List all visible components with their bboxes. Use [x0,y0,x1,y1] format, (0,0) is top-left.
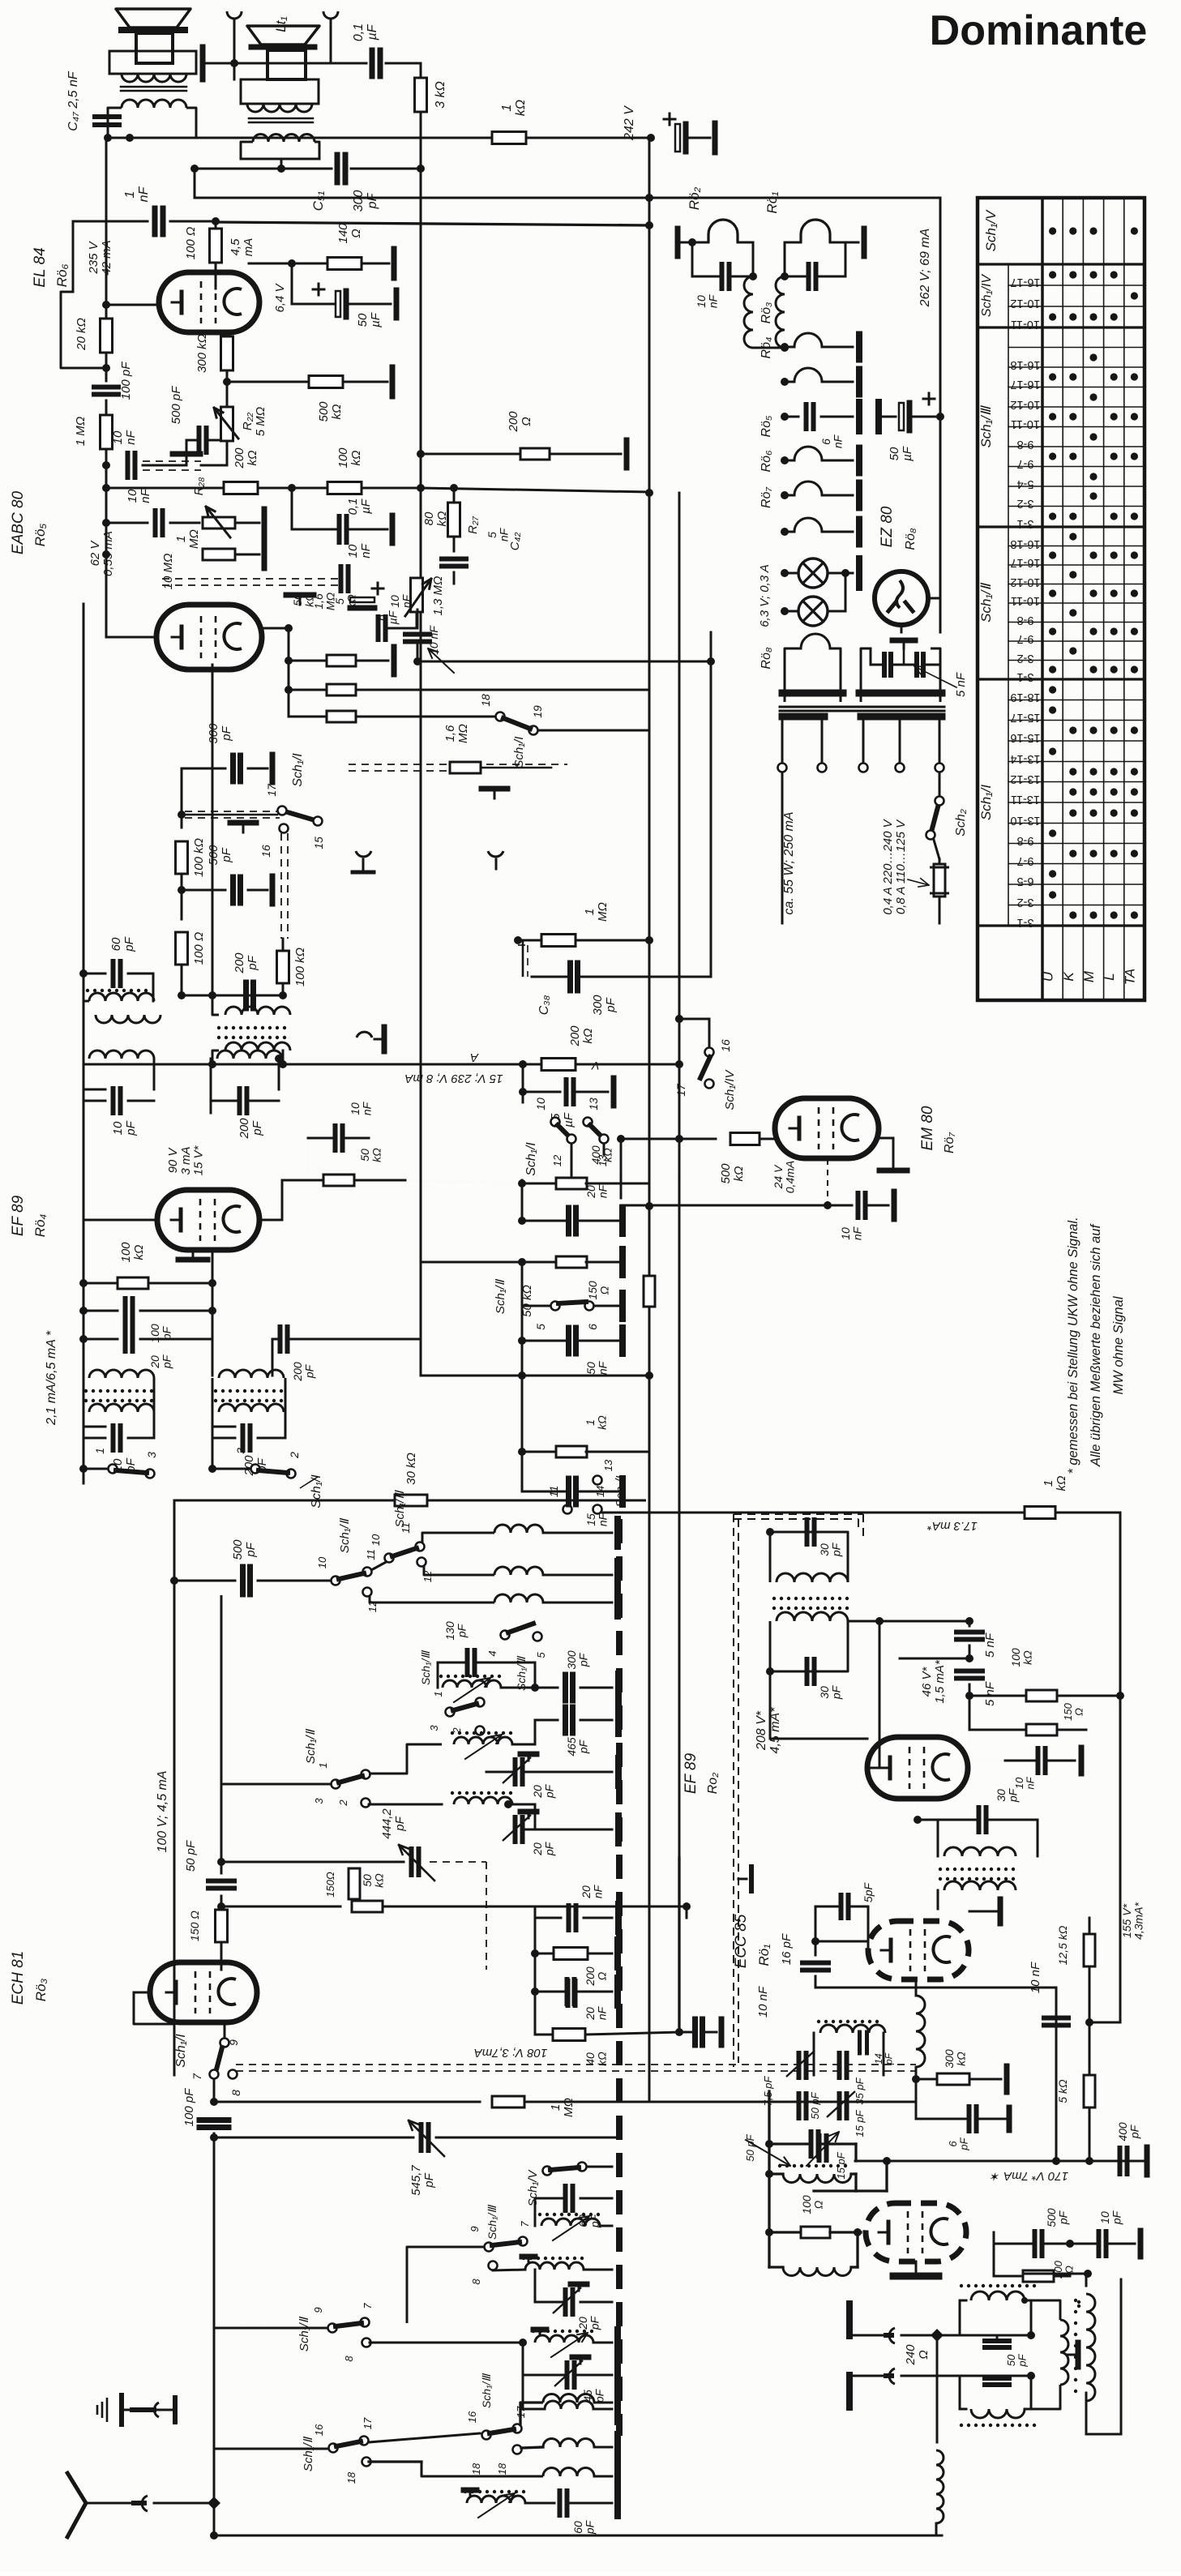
capacitor C47 2,5nF [95,114,119,119]
capacitor 0,1uF [291,488,293,529]
wire y1460 right of 50k [518,1179,526,1187]
svg-text:20pF: 20pF [576,2315,601,2330]
5pF cap [839,1895,844,1918]
svg-text:2: 2 [337,1799,349,1807]
capacitor 10nF agc [105,488,108,523]
transformer HV winding box [861,648,871,702]
fuse [934,840,939,859]
plain coil band [454,1797,512,1804]
IF can windings mid [225,1007,290,1015]
wire x336 1652-1697 [272,1339,274,1376]
wire y1228 long [83,995,84,996]
wire x519 217-760 [420,169,422,616]
svg-text:500kΩ: 500kΩ [317,401,344,422]
capacitor 200pF node [212,980,213,995]
svg-text:5pF: 5pF [862,1881,875,1902]
dipole hooks [849,2334,892,2337]
tube EF89 Ro2 [867,1737,968,1799]
wire y170 to 1kOhm line [454,137,492,139]
trimmers2 [797,2094,802,2118]
svg-text:10nF: 10nF [695,293,720,308]
svg-text:3: 3 [313,1798,325,1804]
svg-text:0,4 A 220…240 V0,8 A 110…125: 0,4 A 220…240 V0,8 A 110…125 V [881,818,908,914]
capacitor 30pF l [805,1659,810,1684]
ground bar Ro1 [862,229,867,256]
svg-text:3: 3 [145,1452,158,1458]
svg-text:TA: TA [1122,969,1137,985]
wire 1382-2495 [1089,2022,1120,2024]
svg-text:50 pF: 50 pF [184,1840,198,1872]
wire x264 to sw9 [214,2323,327,2328]
capacitor 300pF [182,768,225,770]
svg-text:242 V: 242 V [623,105,636,141]
svg-text:17: 17 [674,1083,687,1097]
FM tuner coil box upper [820,2025,885,2033]
wire plate EL84 left [106,304,159,306]
wire x519 1652-1697 [420,1059,422,1180]
svg-text:50pF: 50pF [1005,2353,1029,2367]
capacitor 300pF band [535,1687,558,1689]
resistor 40kOhm [534,1992,537,2035]
svg-text:Rö₇: Rö₇ [943,1132,956,1153]
capacitor 10nF under 1,3M [405,632,430,637]
svg-text:18-19: 18-19 [1010,691,1040,704]
svg-text:1 MΩ: 1 MΩ [74,417,88,446]
cap 50pF fm [769,2142,807,2145]
EM80 target cap 10nF [827,1159,828,1205]
svg-text:60pF: 60pF [109,936,136,952]
capacitor 500pF 2 [182,889,225,892]
capacitor 30pF out [917,1799,918,1820]
svg-text:35 pF: 35 pF [854,2077,866,2104]
dashed 108V line [236,2064,916,2065]
wire into EABC80 [105,604,108,637]
svg-text:20nF: 20nF [584,1183,610,1198]
terminal bar left of Lt1 [200,47,206,79]
cap 20nF real [686,1917,687,1919]
heater coil Rö₆ [781,491,789,499]
IF trafo 3a [89,1370,154,1378]
resistor 12,5k [1084,1934,1095,1966]
svg-text:Sch₁/I: Sch₁/I [174,2034,188,2068]
svg-text:8: 8 [343,2356,355,2362]
cap 10pF out [1097,2232,1102,2256]
wire y1866 17.3mA [602,1512,1025,1514]
svg-text:50nF: 50nF [584,1360,610,1375]
svg-text:15-17: 15-17 [1010,711,1040,724]
heater junction 242V [645,221,653,229]
wire 170V line [855,2160,1147,2163]
wire antenna bottom bus [213,2503,216,2535]
wire 3k to y208 [420,112,422,169]
resistor 500kOhm [309,376,343,388]
wire triode grid x273 to tube [220,1962,222,1970]
resistor 150 Ohm ech [349,1868,360,1899]
svg-text:9-7: 9-7 [1017,632,1034,645]
wire sw1b wiper to x273 [221,1783,331,1786]
switch Sch1/II 10-11 [332,1577,340,1585]
cap 6pF [915,2079,918,2119]
svg-text:10: 10 [370,1534,382,1546]
svg-text:A: A [470,1051,479,1064]
svg-text:200kΩ: 200kΩ [233,447,259,469]
svg-text:5 nF: 5 nF [954,672,968,697]
band coil 2 [424,1566,494,1575]
svg-text:18: 18 [479,694,492,707]
speaker Lt1 terminals [227,11,242,19]
wire [351,168,421,170]
svg-text:24 V0,4mA: 24 V0,4mA [772,1161,797,1193]
dashed bar column main [616,1519,623,2436]
svg-text:0,1µF: 0,1µF [352,24,379,41]
svg-text:M: M [1081,970,1097,982]
wire y560 right to x798 [453,454,455,503]
svg-text:90 V3 mA15 V*: 90 V3 mA15 V* [166,1145,206,1175]
capacitor 5nF r1 [965,1617,973,1625]
wire ro2 left pin [866,1767,868,1769]
ferrite coil ant4 [467,2496,525,2503]
capacitor 6uF electrolytic [372,588,383,590]
resistor 100kOhm ef89 screen [83,1220,84,1283]
svg-text:9-8: 9-8 [1017,834,1034,847]
EM80 ground [879,1137,893,1140]
svg-text:R₂₈: R₂₈ [192,477,206,496]
wire x644 1460-1506 [521,1180,524,1221]
dashed coupling to R22 [143,469,201,471]
wire y816 to x877 [417,661,711,663]
svg-text:100 V; 4,5 mA: 100 V; 4,5 mA [156,1770,169,1852]
svg-text:170 V* 7mA ✶: 170 V* 7mA ✶ [989,2169,1068,2183]
wire x131 down from y170 [105,138,108,305]
capacitor 10nF osc-fm link [678,1858,680,2032]
svg-text:16: 16 [466,2411,478,2423]
primary terminals [778,764,787,772]
switch Sch1/I 17-15 [287,812,313,820]
capacitor 100pF [105,368,108,381]
output transformer T1 primary [122,74,186,82]
svg-text:13: 13 [587,1098,600,1110]
switch Sch1/V [543,2167,552,2176]
ground bar heater left [675,229,681,256]
switch contacts 3-2 [251,1465,260,1474]
resistor 150 Ohm r [1026,1724,1057,1735]
table data column lines [1062,198,1063,1000]
capacitor 10nF stack [376,617,381,640]
wire top if2 to y1306 right [279,1058,421,1059]
t2 grid coil left [783,2267,851,2276]
svg-text:20nF: 20nF [584,2005,609,2020]
TA socket hook 3 [357,1032,372,1038]
svg-text:R₂₇: R₂₇ [466,516,480,534]
IF trafo 2b windings [217,1051,282,1059]
svg-text:EABC 80: EABC 80 [10,490,27,554]
svg-text:MW ohne Signal: MW ohne Signal [1111,1295,1126,1394]
svg-text:5 nF: 5 nF [983,1681,997,1706]
svg-text:13-14: 13-14 [1010,752,1040,765]
box top right wires [567,1500,568,1513]
resistor 1kOhm right [1025,1507,1055,1519]
ferrite coil osc3 [535,2335,593,2343]
capacitor 200pF if3 [212,1426,235,1428]
IF trafo 2a windings [83,1061,84,1100]
switch Sch1/III 16-17-18 [482,2431,491,2440]
resistor 100kOhm 2 [277,951,289,983]
svg-text:13-12: 13-12 [1010,772,1040,785]
wire x131 to y602 [105,465,108,488]
svg-text:60pF: 60pF [571,2519,597,2535]
svg-text:Sch₁/Ⅲ: Sch₁/Ⅲ [515,1656,528,1691]
svg-text:100kΩ: 100kΩ [119,1242,146,1263]
capacitor 50uF cathode bypass [291,263,293,304]
wire y1313 15V 239V line [83,1063,523,1066]
svg-text:108 V; 3,7mA: 108 V; 3,7mA [474,2046,548,2060]
balun mid wires [989,2334,1031,2337]
wire x360 602-610 [291,488,293,494]
heater ground bar Rö₇ [856,520,862,545]
svg-text:16-18: 16-18 [1010,537,1040,550]
svg-text:Sch₁/Ⅱ: Sch₁/Ⅱ [302,2436,315,2471]
wire y471 to 500k [227,381,309,383]
wire x950 2062-2145 [769,1671,772,1739]
resistor 1,6MOhm mid [450,762,481,773]
ECH81 tube Ro3 [150,1962,257,2022]
table label/data divider [1041,198,1044,1000]
wire x273 sw-chain [220,1595,223,1862]
switch Sch1/I 18-19 [496,712,505,721]
svg-text:3-1: 3-1 [1017,517,1034,530]
wire right bus x1382 [1119,1513,1122,2022]
resistor 50kOhm [288,628,290,661]
svg-text:17.3 mA*: 17.3 mA* [926,1519,978,1533]
svg-text:EF 89: EF 89 [10,1195,27,1236]
wire x766 y1405 up [620,1064,622,1139]
svg-text:10nF: 10nF [839,1226,864,1240]
capacitor 50uF B+ [875,402,882,431]
wire x264 down to antenna [213,2137,216,2503]
wire sw8 to coil3 [370,2342,523,2344]
coil ant3 [421,2462,543,2476]
wire y170-y208 speaker return [319,159,320,169]
svg-text:150Ω: 150Ω [324,1872,336,1898]
svg-text:300kΩ: 300kΩ [943,2049,968,2069]
svg-text:Sch₁/Ⅲ: Sch₁/Ⅲ [393,1490,407,1528]
TA socket hook 2 [488,851,503,857]
svg-text:12: 12 [551,1154,563,1166]
capacitor 10nF det [339,567,344,591]
ferrite coil 2 [479,1735,481,1744]
wire t2 plate [993,2232,995,2244]
300k t1 [915,2067,918,2079]
svg-text:Sch₁/I: Sch₁/I [524,1142,538,1176]
svg-text:Rö₈: Rö₈ [760,647,773,669]
transformer primary left [782,713,824,721]
svg-text:13: 13 [602,1459,614,1471]
EZ80 plate wires [928,597,940,600]
capacitor 10pF if3 [83,1426,105,1428]
svg-text:3-1: 3-1 [1017,916,1034,929]
resistor 200kOhm [224,482,258,494]
resistor 1MOhm [105,400,108,417]
svg-text:2: 2 [288,1452,301,1459]
heater filament Ro1 [785,242,801,244]
wire balun down coil [936,2450,944,2523]
svg-text:20pF: 20pF [531,1783,556,1799]
svg-text:6,3 V; 0,3 A: 6,3 V; 0,3 A [758,564,772,627]
svg-text:235 V42 mA: 235 V42 mA [87,240,113,275]
svg-text:16: 16 [313,2424,325,2436]
screen box stub ground [738,1878,747,1881]
resistor 100 Ohm t2 [765,2228,773,2236]
svg-text:5-4: 5-4 [1017,477,1034,490]
speaker Lt1 (right) [247,26,319,45]
tube EZ80 Ro8 [875,571,928,625]
wire ro2 plate [866,1739,867,1757]
lamp ground bar [845,572,853,574]
svg-text:Rö₆: Rö₆ [54,264,70,288]
earth ground symbol [122,2409,175,2411]
resistor 50kOhm screen on bus [644,1276,655,1307]
switch Sch1/II 5-6 [521,1262,524,1306]
wire x103 745-1201 [83,604,85,973]
svg-text:9-8: 9-8 [1017,614,1034,627]
wire 1nF node down to grid resistor [72,221,74,225]
capacitor 5nF r2 [965,1654,973,1662]
wire EF89 grid left [83,1151,85,1220]
svg-text:100 Ω: 100 Ω [184,227,198,260]
svg-text:ECH 81: ECH 81 [10,1951,27,2005]
svg-text:100 pF: 100 pF [182,2088,196,2127]
wire Lt1 secondary mid-tap [280,159,283,169]
ecc85 t1 cathode ground [918,1906,919,1921]
band coil 3 [370,1596,494,1603]
output transformer T1 core [121,86,186,88]
wire y1347 x645 down [522,1092,524,1122]
IF can lower windings [212,1051,219,1064]
capacitor 200pF if2 [211,1089,232,1090]
svg-text:30 kΩ: 30 kΩ [404,1453,418,1485]
ECH81 pin wires [134,1992,150,1994]
svg-text:Dominante: Dominante [930,7,1148,54]
svg-text:10-12: 10-12 [1010,398,1040,411]
svg-text:10 MΩ: 10 MΩ [161,554,175,590]
three B+ buses [678,493,681,1858]
capacitor 500pF band [174,1580,235,1582]
svg-text:1,3 MΩ: 1,3 MΩ [431,576,445,616]
coil ant2 [513,2445,522,2454]
svg-text:C₄₇ 2,5 nF: C₄₇ 2,5 nF [66,71,80,131]
svg-text:10nF: 10nF [349,1101,374,1115]
svg-text:10-11: 10-11 [1011,417,1040,430]
resistor 150 Ohm [216,1910,228,1942]
capacitor 20pF [83,1311,85,1339]
dipole bars [846,2304,853,2336]
16pF cap [802,1961,828,1966]
wire to grid t1 [867,1941,870,1950]
trimmer 20pF osc [563,2290,568,2314]
wire x103 1812-1851 [83,1469,85,1483]
capacitor 10nF ef89 [333,1126,338,1150]
capacitor 10nF r [1036,1748,1041,1773]
capacitor 200pF 3 [272,1338,276,1341]
capacitor 30pF u [805,1520,810,1544]
svg-text:50µF: 50µF [888,446,914,461]
wire x949 FM [768,2091,770,2232]
right feed coil [1086,2294,1095,2401]
wire ECH81 left [173,2074,175,2076]
wire x847 osc to sw [686,1926,687,1928]
resistor 30kOhm [395,1495,427,1506]
svg-text:15nF: 15nF [584,1512,610,1526]
wire antenna up [213,2449,216,2503]
resistor 200 Ohm to y560 [417,450,425,458]
heater coil Rö₄ [781,378,789,386]
balun top coil [971,2291,1025,2300]
svg-text:Sch₁/Ⅲ: Sch₁/Ⅲ [486,2205,499,2240]
IF transformer L13 winding [83,973,89,1001]
heater ground bar Rö₆ [856,483,862,508]
switch Sch1/II 9-7-8 b [328,2324,337,2333]
wire sw to ferrite2 [369,1744,442,1774]
svg-text:10-12: 10-12 [1010,297,1040,310]
svg-text:100kΩ: 100kΩ [1009,1648,1034,1667]
svg-text:30pF: 30pF [818,1684,843,1700]
svg-text:5: 5 [534,1324,547,1330]
svg-text:10nF: 10nF [1013,1776,1037,1789]
RF box outline [174,1500,646,1502]
svg-text:10: 10 [316,1556,328,1568]
capacitor 20nF 2 [534,1953,537,1992]
capacitor 5nF C42 [442,557,466,562]
wire x103 1201-1320 [83,973,85,1070]
capacitor 10pF if2 [83,1089,105,1091]
svg-text:K: K [1061,972,1076,982]
sw wires [554,1122,556,1127]
svg-text:50µF: 50µF [356,312,383,327]
variable cap 444,2pF [221,1861,404,1864]
resistor 100kOhm [327,482,362,494]
switch Sch1/I 10-13 [551,1118,560,1127]
svg-text:10nF: 10nF [111,430,138,444]
switch Sch1/IV 16-17 [675,1015,683,1023]
svg-text:208 V*4,5 mA*: 208 V*4,5 mA* [755,1707,782,1754]
svg-text:3-1: 3-1 [1017,670,1034,683]
svg-text:155 V*4,3mA*: 155 V*4,3mA* [1120,1902,1145,1939]
capacitor 50uF electrolytic [664,118,675,121]
heater ground bar Rö₄ [856,370,862,395]
transformer core lines [780,706,944,708]
svg-text:Rö₅: Rö₅ [32,524,48,547]
dial lamp 1 [781,569,789,577]
resistor 500kOhm EM80 grid [621,1138,716,1140]
ECH81 internal wires [203,1962,204,1970]
svg-text:Sch₁/Ⅲ: Sch₁/Ⅲ [978,404,994,447]
svg-text:EZ 80: EZ 80 [879,506,896,547]
svg-text:Rö₄: Rö₄ [760,337,773,359]
svg-text:3 kΩ: 3 kΩ [434,81,447,109]
tube EABC80 Ro5 [156,605,262,670]
svg-text:* gemessen bei Stellung UKW oh: * gemessen bei Stellung UKW ohne Signal. [1066,1217,1080,1474]
transformer heater winding box [785,648,794,702]
wire plate EF89 [260,1219,282,1222]
wire y208 C51 line [195,168,332,170]
grid T bar 3 [242,823,245,832]
svg-text:10-12: 10-12 [1010,576,1040,588]
svg-text:Sch₁/V: Sch₁/V [526,2169,540,2207]
feedback tap wire [61,292,106,368]
wire sw2 to plain coil [369,1804,442,1806]
svg-text:Rö₈: Rö₈ [904,528,918,550]
wire x215 into box bottom [173,2023,175,2075]
